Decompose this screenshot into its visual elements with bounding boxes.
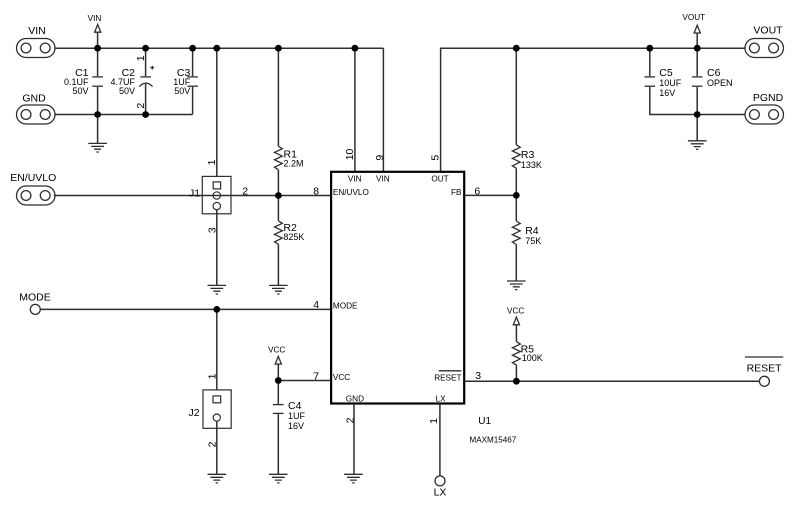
svg-text:100K: 100K xyxy=(522,353,543,363)
svg-text:VCC: VCC xyxy=(268,346,285,355)
connector VOUT xyxy=(745,25,784,58)
svg-text:VIN: VIN xyxy=(88,14,102,23)
svg-text:U1: U1 xyxy=(478,416,491,427)
resistor R4 xyxy=(512,195,541,281)
junction: R1/R2 on EN/UVLO net xyxy=(275,192,282,199)
svg-text:FB: FB xyxy=(451,188,462,197)
wire: U1 GND pin 2 down xyxy=(353,404,355,475)
svg-text:EN/UVLO: EN/UVLO xyxy=(10,172,56,184)
svg-text:VIN: VIN xyxy=(348,175,362,184)
svg-text:RESET: RESET xyxy=(434,374,461,383)
capacitor C4 xyxy=(273,381,306,475)
svg-text:133K: 133K xyxy=(521,160,542,170)
op-amp/regulator U1 MAXM15467 body xyxy=(331,172,464,404)
svg-text:VIN: VIN xyxy=(376,175,390,184)
wire: U1 LX pin 1 down xyxy=(439,404,441,476)
connector PGND xyxy=(745,92,784,124)
svg-text:VCC: VCC xyxy=(333,373,350,382)
wire: MODE horizontal to U1 pin 4 xyxy=(40,308,331,310)
svg-text:2: 2 xyxy=(135,103,147,109)
svg-text:5: 5 xyxy=(429,155,441,161)
junction: C2 on top rail xyxy=(142,45,149,52)
svg-text:VIN: VIN xyxy=(28,25,46,37)
wire: VCC node to U1 pin 7 xyxy=(278,380,331,382)
svg-text:1: 1 xyxy=(135,55,147,61)
capacitor C6 xyxy=(692,48,733,114)
svg-text:8: 8 xyxy=(313,186,319,198)
svg-text:1: 1 xyxy=(206,159,218,165)
svg-text:825K: 825K xyxy=(283,232,304,242)
svg-text:1UF: 1UF xyxy=(288,411,306,421)
ground (R4) xyxy=(507,281,526,290)
svg-text:2.2M: 2.2M xyxy=(284,158,304,168)
ground (R2) xyxy=(269,285,288,294)
terminal MODE xyxy=(19,292,51,315)
ground (input rail) xyxy=(88,115,107,153)
wire: C3 bottom drop xyxy=(192,87,194,115)
capacitor C3 xyxy=(173,48,198,96)
junction: U1 pin 10 on top rail xyxy=(352,45,359,52)
resistor R5 xyxy=(513,342,543,382)
U1 pin name RESET (pin 3, active low) xyxy=(434,371,461,383)
junction: R3 on OUT rail xyxy=(513,45,520,52)
junction: C1 on ground rail xyxy=(94,111,101,118)
svg-text:1: 1 xyxy=(206,373,218,379)
svg-text:9: 9 xyxy=(374,155,386,161)
header J2 xyxy=(189,309,232,428)
wire: GND bottom-left rail xyxy=(55,114,193,116)
svg-text:LX: LX xyxy=(434,487,447,499)
svg-text:16V: 16V xyxy=(659,88,675,98)
junction: C2 on ground rail xyxy=(142,111,149,118)
resistor R1 xyxy=(275,48,304,195)
power flag VCC (at C4) xyxy=(268,346,285,381)
ground (C4) xyxy=(269,474,288,483)
junction: R5 on RESET net xyxy=(513,378,520,385)
svg-text:16V: 16V xyxy=(288,421,304,431)
svg-text:2: 2 xyxy=(242,185,248,197)
junction: J1 pin 1 on top rail xyxy=(213,45,220,52)
terminal LX xyxy=(434,476,447,499)
connector VIN xyxy=(17,25,56,58)
junction: J2 pin 1 on MODE net xyxy=(213,306,220,313)
junction: C6 / VOUT flag on OUT rail xyxy=(694,45,701,52)
svg-text:4: 4 xyxy=(313,299,319,311)
svg-text:50V: 50V xyxy=(119,86,135,96)
svg-text:2: 2 xyxy=(345,417,357,423)
wire: U1 pin 9 drop from top rail xyxy=(382,48,384,171)
svg-text:MAXM15467: MAXM15467 xyxy=(470,435,517,444)
capacitor C1 xyxy=(64,48,103,114)
wire: OUT top rail from U1 pin 5 to VOUT xyxy=(441,48,745,171)
capacitor C5 xyxy=(645,48,682,98)
svg-text:PGND: PGND xyxy=(753,92,784,104)
ground (output rail) xyxy=(688,115,707,150)
junction: VIN flag / C1 on top rail xyxy=(94,45,101,52)
svg-text:7: 7 xyxy=(313,371,319,383)
junction: C6 / PGND on output ground rail xyxy=(694,111,701,118)
svg-text:VOUT: VOUT xyxy=(682,13,705,22)
capacitor C2 (polarized) xyxy=(110,48,154,114)
ground (U1 GND pin) xyxy=(344,474,363,483)
svg-text:MODE: MODE xyxy=(19,292,51,304)
junction: C5 on OUT rail xyxy=(646,45,653,52)
wire: U1 pin 6 FB to divider xyxy=(464,194,516,196)
svg-text:J1: J1 xyxy=(189,188,200,200)
svg-text:50V: 50V xyxy=(174,86,190,96)
svg-text:OPEN: OPEN xyxy=(707,78,733,88)
resistor R2 xyxy=(275,196,305,286)
svg-text:LX: LX xyxy=(436,394,447,403)
svg-text:GND: GND xyxy=(346,394,364,403)
wire: bottom-right rail C5 to PGND xyxy=(650,87,745,115)
svg-text:6: 6 xyxy=(474,185,480,197)
junction: VCC flag / C4 on VCC net xyxy=(275,377,282,384)
svg-text:1: 1 xyxy=(428,418,440,424)
connector GND xyxy=(17,93,56,125)
svg-text:10UF: 10UF xyxy=(659,78,682,88)
svg-text:EN/UVLO: EN/UVLO xyxy=(333,188,369,197)
ground (J2) xyxy=(208,421,227,483)
svg-text:J2: J2 xyxy=(189,407,200,419)
svg-text:75K: 75K xyxy=(525,236,541,246)
svg-text:OUT: OUT xyxy=(431,175,448,184)
svg-text:MODE: MODE xyxy=(333,301,358,310)
wire: VIN top rail xyxy=(55,47,383,49)
svg-text:VOUT: VOUT xyxy=(753,25,783,37)
junction: R3/R4 on FB net xyxy=(513,192,520,199)
wire: EN/UVLO horizontal to U1 pin 8 xyxy=(54,195,331,197)
power flag VOUT xyxy=(682,13,705,48)
resistor R3 xyxy=(512,48,542,195)
power flag VCC (at R5) xyxy=(507,306,524,341)
power flag VIN xyxy=(88,14,102,48)
svg-text:RESET: RESET xyxy=(747,362,783,374)
junction: C3 on top rail xyxy=(189,45,196,52)
svg-text:GND: GND xyxy=(22,93,46,105)
terminal RESET (active low) xyxy=(745,357,783,386)
ground (J1 pin 3) xyxy=(208,210,227,294)
svg-text:3: 3 xyxy=(475,370,481,382)
svg-text:50V: 50V xyxy=(72,86,88,96)
svg-text:10: 10 xyxy=(344,148,356,160)
wire: U1 pin 10 drop from top rail xyxy=(354,48,356,171)
junction: R1 on top rail xyxy=(275,45,282,52)
svg-text:VCC: VCC xyxy=(507,306,524,315)
connector EN/UVLO xyxy=(10,172,56,205)
wire: RESET horizontal from U1 pin 3 xyxy=(464,380,759,382)
header J1 xyxy=(189,48,231,214)
